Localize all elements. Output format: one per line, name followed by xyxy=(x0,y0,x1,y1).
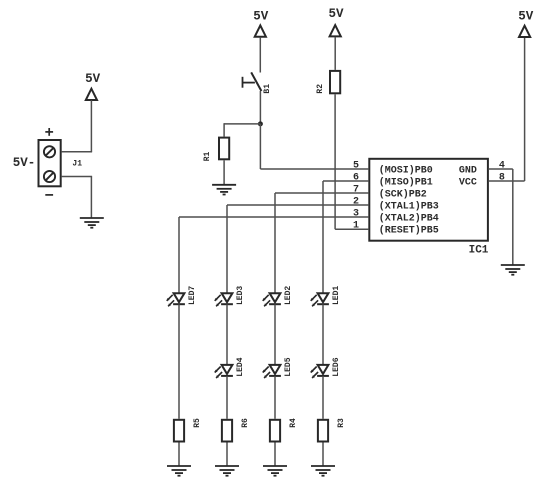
ground (IC pin 4) xyxy=(501,265,525,275)
wire LED7 net to IC pin 3 xyxy=(179,216,368,218)
label LED4 xyxy=(236,357,245,376)
wire R6 to ground xyxy=(226,443,228,467)
pin label (XTAL2)PB4 xyxy=(379,213,439,225)
svg-text:5V: 5V xyxy=(328,7,344,21)
wire LED7 to R5 xyxy=(178,304,180,418)
power 5V symbol (net to J1) xyxy=(85,72,101,100)
pin 2 number xyxy=(353,197,359,208)
svg-text:3: 3 xyxy=(353,209,359,220)
resistor R5 xyxy=(174,420,184,442)
wire down to LED3 xyxy=(226,205,228,293)
svg-text:1: 1 xyxy=(353,221,359,232)
pin 4 number xyxy=(499,160,505,171)
pin 3 number xyxy=(353,209,359,220)
svg-text:LED4: LED4 xyxy=(236,357,245,376)
wire LED3 net to IC pin 2 xyxy=(227,204,368,206)
svg-text:J1: J1 xyxy=(72,160,82,169)
wire R2 down to PB5 row xyxy=(334,94,336,229)
svg-text:5V-: 5V- xyxy=(13,156,36,170)
power 5V symbol (net to B1) xyxy=(253,10,269,37)
connector J1 terminal block xyxy=(39,140,61,186)
pin label (XTAL1)PB3 xyxy=(379,201,439,213)
svg-text:R1: R1 xyxy=(203,151,212,161)
svg-text:R4: R4 xyxy=(289,418,298,428)
wire IC pin 8 to 5V xyxy=(488,38,524,182)
pin label VCC xyxy=(459,178,477,189)
label R2 xyxy=(316,84,325,94)
label R3 xyxy=(337,418,346,428)
value 5V- (J1) xyxy=(13,156,36,170)
minus polarity mark (J1 pin 2) xyxy=(45,194,53,196)
label R6 xyxy=(241,418,250,428)
svg-text:5V: 5V xyxy=(253,10,269,24)
wire down to LED4 xyxy=(226,304,228,364)
junction dot (B1/R1 node) xyxy=(258,121,263,126)
LED LED4 xyxy=(215,365,233,378)
svg-text:6: 6 xyxy=(353,173,359,184)
svg-text:7: 7 xyxy=(353,185,359,196)
svg-text:GND: GND xyxy=(459,166,477,177)
label R5 xyxy=(193,418,202,428)
power 5V symbol (net to R2) xyxy=(328,7,344,36)
resistor R1 xyxy=(219,138,229,160)
label IC1 xyxy=(469,244,489,256)
wire junction down to PB0 row xyxy=(259,124,261,169)
wire LED5 to R4 xyxy=(274,376,276,419)
svg-text:LED5: LED5 xyxy=(284,357,293,376)
svg-text:LED1: LED1 xyxy=(332,286,341,305)
wire 5V symbol to B1 xyxy=(259,37,261,72)
wire down to LED5 xyxy=(274,304,276,364)
pushbutton B1 xyxy=(243,72,262,91)
wire LED4 to R6 xyxy=(226,376,228,419)
svg-text:(XTAL2)PB4: (XTAL2)PB4 xyxy=(379,213,439,225)
wire junction to R1 xyxy=(224,123,260,125)
LED LED2 xyxy=(263,293,281,306)
wire J1 pin 2 stub xyxy=(62,176,92,178)
resistor R6 xyxy=(222,420,232,442)
power 5V symbol (net to VCC) xyxy=(518,9,534,37)
wire 5V symbol to R2 xyxy=(334,37,336,70)
label LED5 xyxy=(284,357,293,376)
label J1 xyxy=(72,160,82,169)
label LED6 xyxy=(332,357,341,376)
pin label (MISO)PB1 xyxy=(379,177,433,189)
svg-text:LED7: LED7 xyxy=(188,286,197,305)
svg-text:R5: R5 xyxy=(193,418,202,428)
label LED3 xyxy=(236,286,245,305)
label B1 xyxy=(263,84,272,94)
wire LED6 to R3 xyxy=(322,376,324,419)
svg-text:R2: R2 xyxy=(316,84,325,94)
ground (below R1) xyxy=(212,185,236,195)
wire down to LED6 xyxy=(322,304,324,364)
wire down to LED7 xyxy=(178,217,180,293)
ground (below J1) xyxy=(80,218,104,228)
label R4 xyxy=(289,418,298,428)
wire J1 pin 2 to ground xyxy=(90,177,92,219)
svg-text:IC1: IC1 xyxy=(469,244,489,256)
label LED7 xyxy=(188,286,197,305)
wire down to LED2 xyxy=(274,193,276,293)
svg-text:LED6: LED6 xyxy=(332,357,341,376)
pin label GND xyxy=(459,166,477,177)
wire button node to IC pin 5 xyxy=(260,168,368,170)
pin 1 number xyxy=(353,221,359,232)
ground (below R6) xyxy=(215,466,239,476)
wire R5 to ground xyxy=(178,443,180,467)
ground (below R4) xyxy=(263,466,287,476)
LED LED5 xyxy=(263,365,281,378)
resistor R3 xyxy=(318,420,328,442)
op-amp/mcu IC1 box xyxy=(369,159,488,241)
wire J1 pin 1 stub xyxy=(62,151,92,153)
svg-text:5: 5 xyxy=(353,161,359,172)
pin 7 number xyxy=(353,185,359,196)
svg-text:(MISO)PB1: (MISO)PB1 xyxy=(379,177,433,189)
svg-text:B1: B1 xyxy=(263,84,272,94)
wire R2 net to IC pin 1 xyxy=(335,228,368,230)
pin 6 number xyxy=(353,173,359,184)
wire B1 to junction xyxy=(259,91,261,124)
svg-text:2: 2 xyxy=(353,197,359,208)
svg-text:(XTAL1)PB3: (XTAL1)PB3 xyxy=(379,201,439,213)
label LED1 xyxy=(332,286,341,305)
svg-text:LED2: LED2 xyxy=(284,286,293,305)
svg-text:(SCK)PB2: (SCK)PB2 xyxy=(379,189,427,201)
svg-text:(RESET)PB5: (RESET)PB5 xyxy=(379,225,439,237)
resistor R2 xyxy=(330,71,340,93)
wire 5V symbol to J1 pin 1 xyxy=(90,100,92,152)
pin label (SCK)PB2 xyxy=(379,189,427,201)
svg-text:8: 8 xyxy=(499,173,505,184)
pin 5 number xyxy=(353,161,359,172)
wire IC pin 4 to ground xyxy=(488,169,513,265)
wire node to R1 top xyxy=(223,123,225,136)
pin label (MOSI)PB0 xyxy=(379,165,433,177)
LED LED7 xyxy=(167,293,185,306)
wire R4 to ground xyxy=(274,443,276,467)
ground (below R5) xyxy=(167,466,191,476)
svg-text:R3: R3 xyxy=(337,418,346,428)
label R1 xyxy=(203,151,212,161)
wire LED1 net to IC pin 6 xyxy=(323,180,368,182)
resistor R4 xyxy=(270,420,280,442)
ground (below R3) xyxy=(311,466,335,476)
pin label (RESET)PB5 xyxy=(379,225,439,237)
svg-text:(MOSI)PB0: (MOSI)PB0 xyxy=(379,165,433,177)
LED LED6 xyxy=(311,365,329,378)
svg-text:5V: 5V xyxy=(518,9,534,23)
svg-text:R6: R6 xyxy=(241,418,250,428)
label LED2 xyxy=(284,286,293,305)
LED LED3 xyxy=(215,293,233,306)
pin 8 number xyxy=(499,173,505,184)
wire R3 to ground xyxy=(322,443,324,467)
wire R1 to ground xyxy=(223,160,225,185)
svg-text:VCC: VCC xyxy=(459,178,477,189)
wire LED2 net to IC pin 7 xyxy=(275,192,368,194)
plus polarity mark (J1 pin 1) xyxy=(45,128,53,136)
wire down to LED1 xyxy=(322,181,324,293)
svg-text:LED3: LED3 xyxy=(236,286,245,305)
LED LED1 xyxy=(311,293,329,306)
svg-text:5V: 5V xyxy=(85,72,101,86)
